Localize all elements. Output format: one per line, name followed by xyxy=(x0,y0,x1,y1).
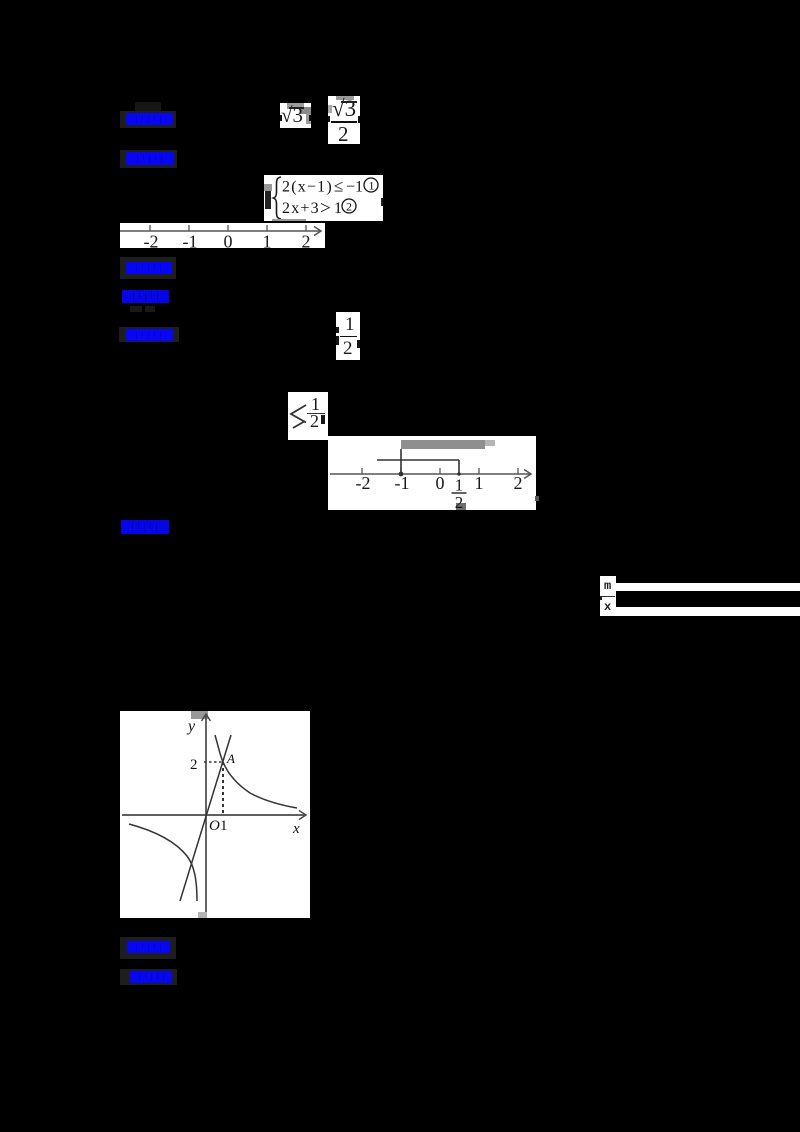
svg-text:2: 2 xyxy=(514,473,523,493)
labels xyxy=(144,232,311,252)
row1 gray notch xyxy=(135,102,161,113)
line 1: 2(x-1)<=-1 (1) xyxy=(282,177,378,220)
horizontal segment xyxy=(377,459,459,461)
hyperbola Q3 xyxy=(129,824,197,901)
svg-text:1: 1 xyxy=(220,818,228,834)
svg-text:x: x xyxy=(292,821,300,837)
svg-text:2: 2 xyxy=(455,493,464,510)
row1 blue label xyxy=(126,112,173,126)
sqrt3/2 fraction box xyxy=(328,96,360,144)
axis xyxy=(330,473,531,475)
straight line through origin xyxy=(180,735,231,901)
row1 label box xyxy=(120,111,176,128)
svg-text:-1: -1 xyxy=(183,232,198,249)
svg-text:-2: -2 xyxy=(356,473,371,493)
right edge mark xyxy=(381,198,383,206)
svg-text:≤: ≤ xyxy=(334,177,343,196)
svg-text:1: 1 xyxy=(475,473,484,493)
row2 label box xyxy=(120,150,177,168)
dot at -1 xyxy=(399,472,404,477)
ticks xyxy=(149,225,151,231)
row3 blue label xyxy=(126,261,172,275)
row8 blue label xyxy=(130,970,172,983)
svg-text:2: 2 xyxy=(346,200,352,214)
svg-text:1: 1 xyxy=(455,476,464,495)
hyperbola Q1 xyxy=(215,735,297,808)
svg-text:>: > xyxy=(320,198,331,219)
svg-text:-2: -2 xyxy=(144,232,159,249)
row4 blue label (no box) xyxy=(122,289,169,304)
svg-text:0: 0 xyxy=(224,232,233,249)
white bar 1 xyxy=(616,583,800,591)
svg-text:-1: -1 xyxy=(395,473,410,493)
number line 1 box xyxy=(120,223,325,248)
region bracket: vertical at -1 xyxy=(400,449,402,474)
1/2 fraction box xyxy=(336,312,360,360)
number line 2 box xyxy=(328,436,536,510)
white bar 2 xyxy=(616,607,800,616)
row6 blue label (no box) xyxy=(121,519,169,535)
partially visible char at left xyxy=(264,184,272,191)
axis xyxy=(120,230,321,232)
row8 label box xyxy=(120,969,177,985)
row7 blue label xyxy=(127,940,170,954)
graph box xyxy=(120,711,310,918)
row2 blue label xyxy=(126,151,174,166)
stray gray dot xyxy=(535,496,539,501)
svg-text:A: A xyxy=(226,751,235,766)
svg-text:O: O xyxy=(209,818,220,834)
dot at 1/2 xyxy=(457,472,461,476)
vertical at 1/2 xyxy=(458,460,460,474)
gray square below 1/2 xyxy=(456,503,466,511)
system of inequalities box xyxy=(264,175,383,221)
labels xyxy=(186,718,300,837)
<=1/2 box xyxy=(288,392,328,440)
row7 label box xyxy=(120,937,176,959)
svg-text:2(x−1): 2(x−1) xyxy=(282,179,333,196)
svg-text:0: 0 xyxy=(436,473,445,493)
gray bar top xyxy=(401,440,485,449)
svg-text:1: 1 xyxy=(369,179,375,193)
gray squares xyxy=(191,711,208,719)
bottom gray streak xyxy=(272,219,306,221)
svg-text:y: y xyxy=(186,718,196,735)
m/x fraction box xyxy=(600,576,616,616)
sqrt3 box xyxy=(280,103,311,128)
ticks xyxy=(361,468,363,474)
row5 label box xyxy=(119,327,179,342)
dashed lines to A xyxy=(204,761,223,763)
svg-text:1: 1 xyxy=(263,232,272,249)
brace xyxy=(274,177,282,219)
row4 small marks below xyxy=(130,306,142,312)
svg-text:2: 2 xyxy=(302,232,311,249)
svg-text:1: 1 xyxy=(334,200,342,217)
svg-text:−1: −1 xyxy=(346,179,363,196)
labels xyxy=(356,473,523,493)
svg-text:2x+3: 2x+3 xyxy=(282,200,320,217)
row5 blue label xyxy=(126,328,173,342)
row3 label box xyxy=(120,257,176,279)
1/2 under axis xyxy=(452,476,467,513)
axes xyxy=(205,714,207,912)
svg-text:2: 2 xyxy=(190,757,198,773)
